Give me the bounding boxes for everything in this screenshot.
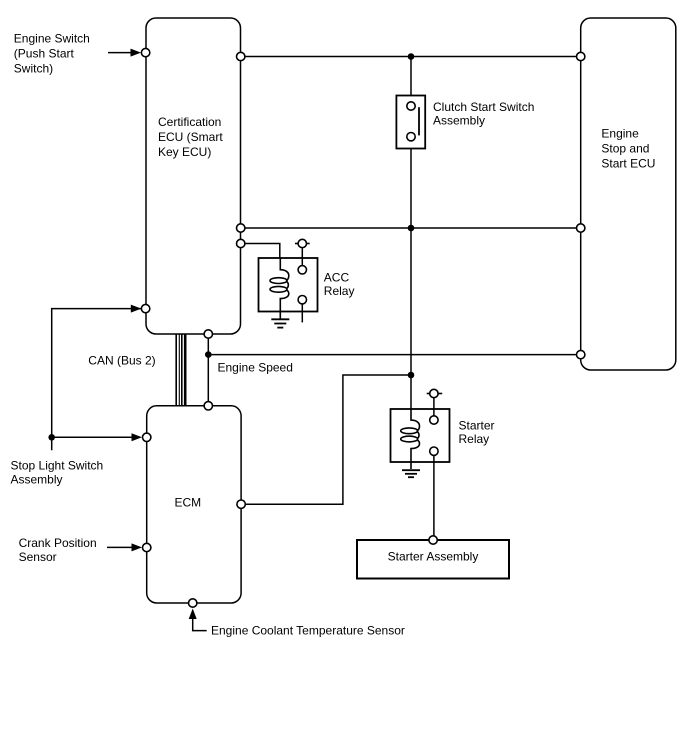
node cert bottom terminal — [204, 330, 212, 338]
node cert right top terminal — [237, 52, 245, 60]
svg-text:Clutch Start Switch: Clutch Start Switch — [433, 100, 534, 114]
wire ACC relay feed y=243.5 — [241, 244, 280, 259]
wire mid bus y=228 — [241, 227, 581, 229]
svg-text:Start ECU: Start ECU — [601, 156, 655, 170]
coil — [411, 409, 420, 469]
label Crank Position Sensor — [19, 536, 97, 564]
node cert right lower terminal — [237, 239, 245, 247]
svg-text:Engine Speed: Engine Speed — [218, 360, 293, 374]
node ecm bottom terminal — [189, 599, 197, 607]
svg-text:Starter: Starter — [459, 418, 495, 432]
node junction at clutch line mid — [408, 225, 415, 232]
wire clutch switch vertical lower — [410, 141, 412, 409]
wire ECM to starter relay — [241, 375, 411, 504]
power terminal — [295, 243, 310, 245]
svg-text:Stop Light Switch: Stop Light Switch — [11, 459, 104, 473]
power terminal — [427, 393, 443, 395]
svg-text:Starter Assembly: Starter Assembly — [388, 549, 479, 563]
node engine ecu bottom terminal — [577, 350, 585, 358]
svg-text:Assembly: Assembly — [433, 113, 485, 127]
svg-text:Certification: Certification — [158, 115, 221, 129]
ACC Relay — [259, 239, 355, 327]
wire engine coolant temp sensor — [189, 609, 207, 631]
ground — [402, 469, 420, 471]
Certification ECU (Smart Key ECU) box — [146, 18, 241, 334]
wire engine switch arrow — [108, 49, 141, 57]
ECM box — [147, 406, 241, 603]
svg-text:Switch): Switch) — [14, 62, 53, 76]
svg-text:Engine Coolant Temperature Sen: Engine Coolant Temperature Sensor — [211, 623, 405, 637]
node cert left bottom terminal — [141, 304, 149, 312]
svg-text:Engine: Engine — [601, 126, 639, 140]
node ecm top terminal — [204, 402, 212, 410]
Starter Relay — [391, 389, 495, 540]
coil — [280, 258, 289, 319]
svg-text:Key ECU): Key ECU) — [158, 145, 211, 159]
label Stop Light Switch Assembly — [11, 459, 104, 487]
Starter Assembly box — [357, 540, 509, 579]
svg-text:Stop and: Stop and — [601, 141, 649, 155]
node ecm left upper terminal — [143, 433, 151, 441]
wire stop light switch — [52, 305, 142, 451]
wire engine speed y=354.6 — [208, 354, 580, 356]
svg-text:ECM: ECM — [175, 495, 202, 509]
svg-text:ACC: ACC — [324, 271, 350, 285]
wire cert ECU to ECM vertical — [207, 334, 209, 406]
svg-text:Crank Position: Crank Position — [19, 536, 97, 550]
svg-text:Relay: Relay — [324, 284, 355, 298]
node engine ecu top terminal — [577, 52, 585, 60]
node starter relay junction — [408, 372, 415, 379]
svg-text:Sensor: Sensor — [19, 550, 57, 564]
Engine Stop and Start ECU box — [581, 18, 676, 370]
node ecm right terminal — [237, 500, 245, 508]
Clutch Start Switch Assembly — [396, 96, 534, 149]
node junction at clutch line top — [408, 53, 415, 60]
node starter assembly terminal — [429, 536, 437, 544]
node cert right mid terminal — [237, 224, 245, 232]
svg-text:ECU (Smart: ECU (Smart — [158, 130, 223, 144]
svg-text:(Push Start: (Push Start — [14, 47, 75, 61]
node engine ecu mid terminal — [577, 224, 585, 232]
ground — [271, 318, 289, 320]
svg-text:Relay: Relay — [459, 432, 490, 446]
node ecm left lower terminal — [143, 543, 151, 551]
svg-text:CAN (Bus 2): CAN (Bus 2) — [88, 353, 155, 367]
svg-text:Assembly: Assembly — [11, 473, 63, 487]
wire clutch switch vertical upper — [410, 57, 412, 103]
label Engine Switch (Push Start Switch) — [14, 32, 90, 76]
wire top bus y=56.5 — [241, 56, 581, 58]
wire crank position arrow — [107, 543, 142, 551]
node stop light junction — [48, 434, 55, 441]
svg-text:Engine Switch: Engine Switch — [14, 32, 90, 46]
node cert left top terminal — [141, 48, 149, 56]
node engine speed junction — [205, 351, 212, 358]
CAN bus lines — [176, 334, 185, 406]
